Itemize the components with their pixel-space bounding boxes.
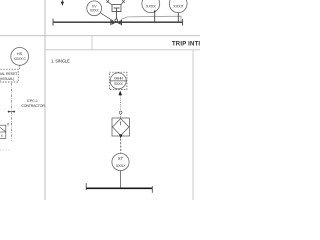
dashed stub bottom left — [0, 149, 11, 151]
border vertical line x=45 — [44, 0, 46, 200]
wire: dashed line to XT — [120, 139, 122, 153]
border vertical line x=193 — [192, 50, 194, 200]
wire: right cut mark to actuator — [121, 0, 125, 5]
svg-text:CONTRACTOR: CONTRACTOR — [21, 104, 45, 108]
wire: signal arrow top left — [61, 0, 64, 6]
boundary arrows — [8, 111, 16, 113]
svg-text:XXXX: XXXX — [173, 4, 183, 9]
instrument bubble top right 2 — [169, 0, 187, 13]
busbar right tick — [151, 186, 153, 193]
column divider x=92 — [91, 36, 93, 50]
svg-text:XXXX C: XXXX C — [14, 57, 27, 61]
svg-text:(VISUAL): (VISUAL) — [0, 77, 14, 81]
wire: leader XV to valve — [100, 13, 113, 22]
pipe right end tick — [182, 19, 184, 26]
wire: left cut mark to actuator — [106, 0, 112, 5]
svg-text:XXXX: XXXX — [146, 4, 156, 9]
arrow into alarm box — [118, 91, 122, 96]
note box MANUAL RESET (VISUAL) — [0, 69, 18, 82]
svg-text:XXXX: XXXX — [116, 163, 126, 168]
interlock square with diamond — [112, 118, 130, 136]
arrow out of interlock — [119, 134, 123, 138]
alarm bubble XAHH XXXX in dashed box — [109, 72, 127, 89]
wire: drop from bubble 2 — [177, 13, 179, 23]
svg-text:TRIP INTI: TRIP INTI — [172, 42, 200, 48]
wire: node to interlock square — [120, 114, 122, 118]
valve actuator box — [112, 5, 121, 12]
border horizontal line y=50 — [45, 49, 200, 51]
label EPC-1 CONTRACTOR — [21, 99, 45, 108]
svg-text:XAHH: XAHH — [114, 76, 124, 80]
svg-text:HS: HS — [17, 51, 23, 56]
svg-text:XXXX: XXXX — [114, 82, 124, 86]
instrument bubble XV XXXX — [87, 1, 102, 16]
svg-text:XT: XT — [118, 156, 124, 161]
wire: dotted signal line — [119, 96, 121, 112]
border horizontal line y=35.7 — [0, 35, 200, 37]
wire: bypass line to pipe end — [121, 16, 181, 22]
wire: actuator stem — [116, 12, 118, 20]
EPC boundary dash-dot line — [10, 83, 12, 141]
valve body — [111, 19, 122, 25]
instrument bubble top right 1 — [142, 0, 160, 13]
wire: drop from bubble 1 — [154, 11, 156, 22]
node circle — [119, 111, 122, 114]
svg-text:XXXX: XXXX — [90, 9, 100, 13]
pipe main line — [53, 21, 183, 23]
svg-text:EPC-1: EPC-1 — [27, 99, 38, 103]
transmitter bubble XT XXXX — [112, 153, 129, 170]
svg-text:MANUAL RESET: MANUAL RESET — [0, 72, 18, 76]
pushbutton box with X (cut at edge) — [0, 123, 10, 139]
wire: dashed drop HS to note box — [19, 65, 21, 69]
busbar left tick — [85, 183, 87, 190]
wire: XT to busbar — [120, 171, 122, 188]
svg-text:1. SINGLE: 1. SINGLE — [51, 58, 70, 63]
busbar — [86, 187, 152, 189]
pipe left end tick — [52, 19, 54, 26]
hand switch bubble HS XXXX C — [11, 48, 29, 66]
